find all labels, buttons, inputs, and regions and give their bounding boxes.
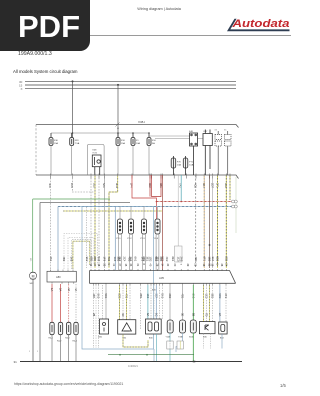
fuse stub drops to box bottom [51,146,149,176]
wire red x132 jog to pill [132,175,156,219]
svg-text:3B1: 3B1 [116,257,120,262]
wire gray dashed x50.5 [50,175,52,271]
wire gray x182.5 down [182,285,184,320]
svg-text:10A: 10A [189,163,193,166]
harness blue box [82,207,154,350]
Autodata logo [224,14,294,36]
svg-text:10A: 10A [136,142,140,145]
wire code labels below module [92,294,228,299]
glowplug R4-3 [67,322,71,334]
svg-text:4F8: 4F8 [48,183,52,188]
svg-text:R4-2: R4-2 [57,341,62,343]
relay K48 box [92,155,101,175]
svg-text:2B: 2B [92,313,96,316]
wire gray x151 down [150,285,152,319]
svg-text:A80: A80 [56,275,61,279]
glowplug feed wire labels [50,288,78,291]
wire dark x209.5 [209,175,211,268]
relay K48 staple wire [87,144,104,174]
connector dot 1a [117,128,118,129]
svg-text:41: 41 [112,264,115,267]
wire blue Y33B jog [176,333,183,352]
svg-text:8D3: 8D3 [115,183,119,188]
switch S10B [190,320,196,333]
wire glowplug returns to ground [52,335,76,361]
wire bus30 to fuse F39 [72,81,74,137]
ground bus 31 rail [20,361,242,363]
fuse F70 [171,156,176,175]
wire yellow dashed x230 [229,175,231,200]
svg-text:F39: F39 [75,140,80,142]
wire B36 drop [204,334,211,349]
svg-text:2D1: 2D1 [159,257,163,262]
wire cyan x147.9 down [147,285,149,319]
wire gray x140.6 down [140,285,142,330]
fuse F10 [147,133,151,146]
connector pair on blue wire [232,205,238,208]
svg-text:25: 25 [194,264,197,267]
wire green left vertical [32,199,34,272]
svg-text:40: 40 [148,264,151,267]
wire yellow x209.5 down [209,285,211,322]
svg-text:S10B: S10B [189,337,195,339]
wire Y36 top [143,207,145,220]
svg-text:6D1: 6D1 [89,257,93,262]
wire Y36 bottom pair [143,234,146,270]
wire gray x170 down [169,285,171,320]
diode block D1 [215,131,222,175]
svg-text:4D2: 4D2 [194,257,198,262]
wire orange dashed x204.2 [203,175,205,268]
wire darkred x162 [161,175,163,270]
wire cyan x181 [180,175,182,202]
wire yellow dashed horizontal [63,210,162,212]
injector Y37 [155,219,160,234]
header title text [10,7,308,11]
wire yellow dashed x217.5 [217,175,219,268]
wire gray x154 down [153,285,155,319]
svg-text:1C: 1C [155,313,159,316]
wire Y37 bottom pair [156,234,159,270]
fuse F16 [116,133,120,146]
wire yellow x203.5 down [203,285,205,322]
junction on bus 30 [72,80,74,82]
wire red A80 pin2 to glowplug [60,284,62,322]
svg-text:3C2: 3C2 [85,257,89,262]
wire dashed jog x72.3 [72,175,95,192]
wire gray x159.5 down [159,285,161,319]
svg-text:39: 39 [186,264,189,267]
svg-text:1190021: 1190021 [128,364,138,368]
svg-text:1: 1 [29,351,31,353]
injector Y34 [118,219,123,234]
ground rail junction [194,361,196,363]
wire gray x162.5 down [162,285,164,319]
fusebox bottom pin ticks [51,174,231,179]
svg-text:10A: 10A [177,163,181,166]
svg-text:X4: X4 [215,129,217,131]
svg-text:34: 34 [93,264,96,267]
svg-text:X: X [21,87,23,91]
glowplug R4-2 [58,322,62,334]
junction on bus 15 [117,84,119,86]
A35 top pin ticks [91,269,226,271]
injector Y36 [142,219,147,234]
wire red A80 pin1 to glowplug [51,284,53,322]
wire gray x106 down [105,285,107,319]
svg-text:20: 20 [173,264,176,267]
svg-text:6: 6 [216,264,219,266]
sensor B32 [118,320,136,334]
wire code labels above module row [49,257,229,262]
wire yellow x119.5 down [119,285,121,320]
wire blue x156.3 down [155,285,157,319]
wire teal Y10B to ground [169,333,171,362]
svg-text:7: 7 [179,264,182,266]
svg-text:2A3: 2A3 [179,257,183,262]
svg-text:F71: F71 [189,162,194,164]
wire bus15 to fuse F16 [117,85,119,138]
valve Y10B [167,320,173,333]
PDF badge [0,0,90,51]
wire dashed x98.4 down [97,285,99,348]
svg-text:7C1: 7C1 [107,257,111,262]
subtitle [13,69,77,74]
connector pair on red wire [232,200,238,203]
svg-text:K46: K46 [189,131,194,133]
wire green horizontal top-left [33,198,110,200]
connector pair bottom2 [177,341,183,349]
svg-text:5A: 5A [152,142,155,145]
A35 pin number row top [89,264,227,267]
svg-text:R4-3: R4-3 [65,338,70,340]
svg-text:7.5A: 7.5A [75,142,80,145]
junction on x209.5 [209,244,211,246]
loop gray n2 [68,238,94,270]
svg-text:F30: F30 [54,140,59,142]
svg-text:5B: 5B [192,313,196,316]
svg-text:3E1: 3E1 [146,257,150,262]
svg-text:1F2: 1F2 [140,257,144,262]
svg-text:2B4: 2B4 [93,257,97,262]
doc number [18,51,52,57]
wire dashed x96 down [95,285,97,348]
wire blue x219.9 down [219,285,221,322]
svg-text:22: 22 [102,264,105,267]
glowplug R4-1 [50,322,54,334]
wire stub to connector box [177,175,179,246]
sensor B36 [199,322,215,334]
svg-text:7A2: 7A2 [179,183,183,188]
svg-text:4D: 4D [121,313,125,316]
wire red U loop [152,175,162,197]
svg-text:4C2: 4C2 [165,257,169,262]
wire yellow dashed x226.3 [225,175,227,268]
svg-text:K48: K48 [93,150,98,152]
svg-text:3A: 3A [67,288,71,291]
inner rail junctions [72,132,74,134]
svg-text:18: 18 [97,264,100,267]
bus 30 wire [25,81,236,83]
wire yellow dashed x95 [94,175,96,268]
svg-text:2A: 2A [218,313,222,316]
svg-text:1A: 1A [50,288,54,291]
wire gray x130 down [129,285,131,320]
wire red x150 drop [149,175,151,197]
sensor B34 [219,322,227,334]
wire Y37 top [157,207,159,220]
wire pale green x236 [235,177,237,233]
svg-text:4A: 4A [74,288,78,291]
wire yellow jog x117.7 [109,175,118,268]
svg-text:K47: K47 [204,131,209,133]
wire blue bottom drop [153,349,155,362]
bus X wire [25,88,236,90]
svg-text:M: M [32,274,35,278]
fusebox left edge dashed [35,125,37,176]
svg-text:9F1: 9F1 [29,258,31,262]
horizontal header rule [14,35,291,36]
wire gray dashed A80 pin4 [75,284,77,322]
injector Y35 [129,219,134,234]
junction red [156,201,158,203]
sensor codes row above components [92,313,222,316]
svg-text:2C5: 2C5 [70,183,74,188]
fusebox top edge [36,125,239,128]
fuse F1 [131,133,135,146]
svg-text:15A: 15A [54,142,58,145]
bus 15 wire [25,84,236,86]
ground rail green [108,354,194,356]
junction cyan-red [180,201,182,203]
wire dashed x102.5 down [102,285,104,319]
wire B34 drop [221,334,223,349]
svg-text:1A5: 1A5 [70,257,74,262]
svg-text:21: 21 [136,264,139,267]
footer url [14,382,123,386]
wire code labels below fusebox [48,183,228,188]
svg-text:2F1: 2F1 [49,257,53,262]
wire motor to ground rail [32,279,34,361]
svg-text:A35: A35 [159,276,164,280]
wire blue x115.3 [114,207,116,271]
wire green x193.3 down [192,285,194,320]
wire gray horizontal x40 [40,202,130,204]
svg-text:9: 9 [107,264,110,266]
wire gray dashed x91 [90,175,92,268]
module A35 box [89,271,235,284]
svg-text:X5: X5 [224,129,226,131]
svg-text:31: 31 [14,360,18,364]
A80 bottom pin ticks [52,282,74,284]
svg-text:B30: B30 [149,338,153,340]
footer page number [280,383,286,388]
svg-text:19: 19 [211,264,214,267]
svg-text:SF2: SF2 [30,283,35,285]
wire yellow loop bottom [123,334,148,347]
wire red horizontal [156,201,231,203]
valve Y33B [180,320,186,333]
svg-text:5B2: 5B2 [154,257,158,262]
svg-text:7D: 7D [205,313,209,316]
wire Y35 top [130,207,132,220]
fuse F39 [70,133,74,146]
wire Y34 bottom pair [119,234,122,270]
fusebox bottom edge [36,175,239,179]
connector pair bottom1 [167,341,173,349]
wire gray x226 down [225,285,227,322]
svg-text:5A1: 5A1 [102,183,106,188]
svg-text:5E2: 5E2 [216,257,220,262]
wire blue drop to A80 [57,207,59,272]
svg-text:12: 12 [89,264,92,267]
svg-text:6F1: 6F1 [202,257,206,262]
wire gray x206.5 down [206,285,208,322]
wire red dashed A80 pin3 [68,284,70,322]
A80 top pin ticks [51,270,74,272]
svg-text:R4-4: R4-4 [73,341,78,343]
svg-text:32: 32 [166,264,169,267]
svg-text:6E1: 6E1 [171,257,175,262]
svg-text:3A4: 3A4 [211,257,215,262]
svg-text:1: 1 [37,351,39,353]
svg-text:6A: 6A [146,313,150,316]
svg-text:R4-1: R4-1 [49,338,54,340]
connector box X21 [175,246,183,262]
fusebox inner rail [51,132,149,134]
motor M SF2 [29,272,36,279]
wire blue horizontal [58,206,232,208]
wire Y34 top [119,207,121,220]
svg-text:2C1: 2C1 [225,257,229,262]
fuse F71 [183,156,188,175]
svg-text:B31: B31 [99,337,103,339]
sensor B30 [146,319,162,334]
connector B31 [100,319,109,334]
wire gray dashed x86.6 [86,207,88,268]
wire gray x212.5 down [212,285,214,322]
wire green S10B to ground [192,333,194,362]
svg-text:2F4: 2F4 [130,183,134,188]
loop gray n3 [71,240,91,269]
svg-text:F16: F16 [121,140,126,142]
ground rail green junctions [119,354,121,356]
svg-text:2A: 2A [59,288,63,291]
svg-text:4D2: 4D2 [127,257,131,262]
wire yellow x126.5 down [126,285,128,320]
svg-text:F1: F1 [136,140,139,142]
wire dashed x93.6 down [93,285,95,348]
svg-text:F10: F10 [152,140,157,142]
svg-text:15: 15 [124,264,127,267]
wire Y35 bottom pair [130,234,133,270]
svg-text:4B2: 4B2 [62,257,66,262]
svg-text:31: 31 [208,264,211,267]
loop gray n1 [64,234,98,270]
wire gray dashed x195.7 [195,175,197,268]
diode block D2 [225,131,232,175]
svg-text:38: 38 [220,264,223,267]
svg-text:6A1: 6A1 [134,257,138,262]
junction S10B ground [192,361,194,363]
svg-text:3E: 3E [181,313,185,316]
glowplug R4-4 [74,322,78,334]
ECU A80 box [47,271,76,282]
svg-text:X38-I: X38-I [138,120,145,124]
svg-text:24: 24 [224,264,227,267]
svg-text:1F3: 1F3 [103,257,107,262]
loop yellow n4 [73,241,90,269]
fuse F30 [49,133,53,146]
svg-text:14: 14 [160,264,163,267]
svg-text:HCM: HCM [93,152,98,154]
svg-text:5A2: 5A2 [97,257,101,262]
wire teal B30 to ground [156,334,158,362]
wire gray dashed x99 [98,175,100,268]
svg-text:1B2: 1B2 [93,183,97,188]
svg-text:13: 13 [202,264,205,267]
wire feed to relay K46 [149,136,203,139]
A35 bottom pin ticks [94,283,226,285]
relay K47 box [203,130,212,176]
svg-text:F70: F70 [177,162,182,164]
connector 1a tick [116,123,120,127]
svg-text:2C4: 2C4 [123,257,127,262]
wire gray long left vertical [39,203,41,362]
wire gray x104 [103,175,105,268]
relay K46 box [190,133,198,175]
svg-text:15A: 15A [121,142,125,145]
wire gray x123 down [122,285,124,320]
wire gray x212.6 [212,175,214,268]
